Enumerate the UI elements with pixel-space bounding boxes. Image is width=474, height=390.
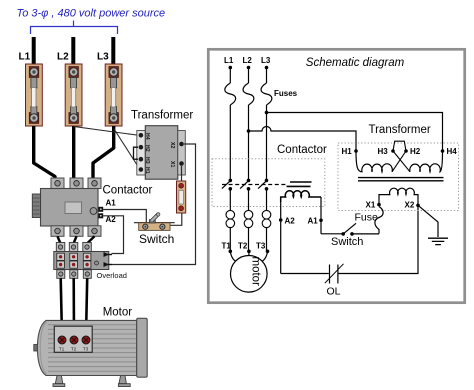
svg-text:T1: T1 <box>59 347 65 353</box>
switch (pictorial) <box>134 213 175 231</box>
wire contact to heater L3 <box>266 189 268 211</box>
svg-text:L3: L3 <box>97 52 109 63</box>
svg-text:X1: X1 <box>169 161 175 167</box>
motor leads <box>230 251 267 262</box>
svg-text:OL: OL <box>327 286 341 298</box>
svg-text:L2: L2 <box>243 56 253 65</box>
wire L3 drop <box>266 68 268 84</box>
svg-text:H2: H2 <box>144 145 150 152</box>
svg-text:L2: L2 <box>57 52 69 63</box>
svg-text:Switch: Switch <box>331 236 363 248</box>
svg-text:Contactor: Contactor <box>277 144 327 156</box>
svg-text:motor: motor <box>249 256 261 286</box>
transformer core <box>358 178 444 181</box>
ground symbol <box>428 238 448 244</box>
wire X2 to ground <box>418 205 438 237</box>
svg-text:Contactor: Contactor <box>103 184 153 196</box>
svg-text:L1: L1 <box>224 56 234 65</box>
contactor (pictorial) <box>32 178 103 236</box>
overload heater T3 <box>262 210 271 251</box>
wire bottom rung right <box>339 205 419 273</box>
node H4 <box>441 149 445 153</box>
svg-text:H4: H4 <box>447 147 458 156</box>
wire L1 top <box>32 37 36 67</box>
motor (schematic) <box>231 255 268 292</box>
svg-text:X2: X2 <box>169 142 175 148</box>
node T3 <box>266 250 270 254</box>
wire A2 to overload NO contact <box>103 216 123 254</box>
wire L2 top <box>71 37 75 67</box>
contactor core bars <box>287 182 312 186</box>
node L1 <box>229 66 233 70</box>
actuator dashed link <box>222 184 286 186</box>
coil M <box>281 191 321 202</box>
wire X1 to control fuse <box>181 166 183 181</box>
wire L1 drop <box>229 68 231 84</box>
junction L2 to transformer feed <box>247 129 251 133</box>
control fuse (pictorial) <box>177 181 186 213</box>
svg-text:H3: H3 <box>378 147 389 156</box>
wire A1 to switch <box>103 210 146 225</box>
svg-text:H1: H1 <box>342 147 353 156</box>
fuse L3 (schematic) <box>261 83 272 105</box>
wire L2 drop <box>248 68 250 84</box>
node X2 <box>416 204 420 208</box>
wire contactor to overload pole1 <box>58 236 61 243</box>
wire X2 to overload NC contact <box>112 144 196 265</box>
svg-text:H1: H1 <box>144 167 150 174</box>
OL NC contact <box>325 264 344 284</box>
wire overload to motor T2 <box>72 278 75 336</box>
node X1 <box>377 203 381 207</box>
node H1 <box>354 149 358 153</box>
switch (schematic) <box>341 223 356 235</box>
node H3 <box>391 149 395 153</box>
wire fuse3 to contactor T-pole3 <box>93 126 114 180</box>
fuse L1 (schematic) <box>225 83 236 105</box>
svg-text:Overload: Overload <box>97 271 127 280</box>
wire contact to heater L2 <box>248 189 250 211</box>
fuse F1 (pictorial) <box>26 64 43 126</box>
wire contact to heater L1 <box>229 189 231 211</box>
svg-text:H2: H2 <box>410 147 421 156</box>
svg-text:To 3-φ , 480 volt power source: To 3-φ , 480 volt power source <box>17 8 166 20</box>
wire L3 to contact <box>266 105 268 180</box>
node L3 <box>265 66 269 70</box>
contact M3 <box>258 179 268 191</box>
cross link H3 to winding <box>393 151 410 172</box>
wire coil left leg / A2 <box>280 202 282 274</box>
svg-text:Transformer: Transformer <box>131 110 193 122</box>
svg-text:Fuses: Fuses <box>274 89 298 98</box>
svg-text:L3: L3 <box>261 56 271 65</box>
contactor enclosure (dotted) <box>212 159 325 207</box>
svg-text:T2: T2 <box>238 242 248 251</box>
wire overload to motor T3 <box>86 278 87 336</box>
svg-text:A2: A2 <box>285 217 296 226</box>
overload heater T1 <box>226 210 235 251</box>
fuse F2 (pictorial) <box>65 64 82 126</box>
wire coil right leg / A1 <box>320 197 322 234</box>
transformer enclosure (dotted) <box>338 143 459 211</box>
wire A1 to switch (schematic) <box>321 233 343 235</box>
primary winding H4 side <box>410 151 443 172</box>
cross link H2 to winding <box>392 151 406 172</box>
svg-text:L1: L1 <box>19 52 31 63</box>
fuse F3 (pictorial) <box>105 64 122 126</box>
primary winding H1 side <box>356 151 392 172</box>
wire fuse2 to contactor T-pole2 <box>72 126 75 180</box>
secondary winding <box>379 188 418 205</box>
svg-text:T2: T2 <box>71 347 77 353</box>
svg-text:T1: T1 <box>222 242 232 251</box>
wire contactor to overload pole2 <box>74 236 77 243</box>
wire fuse3 to transformer H1 <box>114 129 140 170</box>
svg-text:Motor: Motor <box>103 307 133 319</box>
node H2 <box>404 149 408 153</box>
svg-text:Transformer: Transformer <box>369 124 431 136</box>
overload heater T2 <box>244 210 253 251</box>
svg-text:Switch: Switch <box>139 232 174 246</box>
wire L1 to contact <box>229 105 231 180</box>
svg-text:T3: T3 <box>256 242 266 251</box>
wire contactor to overload pole3 <box>87 236 95 243</box>
wire control fuse to switch <box>163 213 182 225</box>
svg-text:H3: H3 <box>144 157 150 164</box>
fuse L2 (schematic) <box>243 83 254 105</box>
node T1 <box>229 250 233 254</box>
node T2 <box>247 250 251 254</box>
control fuse (schematic) <box>375 207 383 234</box>
contact M2 <box>240 179 250 191</box>
svg-text:H4: H4 <box>144 133 150 140</box>
svg-text:X2: X2 <box>405 201 415 210</box>
node L2 <box>247 66 251 70</box>
svg-text:A1: A1 <box>308 217 319 226</box>
svg-text:A1: A1 <box>106 199 117 208</box>
overload relay (pictorial) <box>54 243 112 279</box>
svg-text:Schematic diagram: Schematic diagram <box>306 57 405 69</box>
wire L3 to H4 <box>267 113 443 152</box>
wire bottom rung left <box>281 273 329 275</box>
wire L2 to contact <box>248 105 250 180</box>
motor (pictorial) <box>34 318 147 386</box>
panel frame <box>208 49 464 302</box>
contact M1 <box>222 179 232 191</box>
node A2 <box>279 218 283 222</box>
wire switch to fuse <box>352 233 379 235</box>
jumper H3-H2 <box>393 141 406 151</box>
node A1 <box>319 219 323 223</box>
wire L3 top <box>111 37 115 67</box>
transformer (pictorial) <box>134 126 186 180</box>
wire fuse1 to contactor T-pole1 <box>34 126 55 180</box>
junction L3 to transformer feed <box>265 111 269 115</box>
svg-text:X1: X1 <box>366 201 376 210</box>
svg-text:T3: T3 <box>83 347 89 353</box>
svg-text:Fuse: Fuse <box>355 212 379 224</box>
wire L2 to H1 (with crossover hop) <box>249 127 357 152</box>
bracket to power source <box>31 21 118 35</box>
wire fuse2 to transformer H4 <box>74 127 140 136</box>
wire overload to motor T1 <box>61 278 62 336</box>
